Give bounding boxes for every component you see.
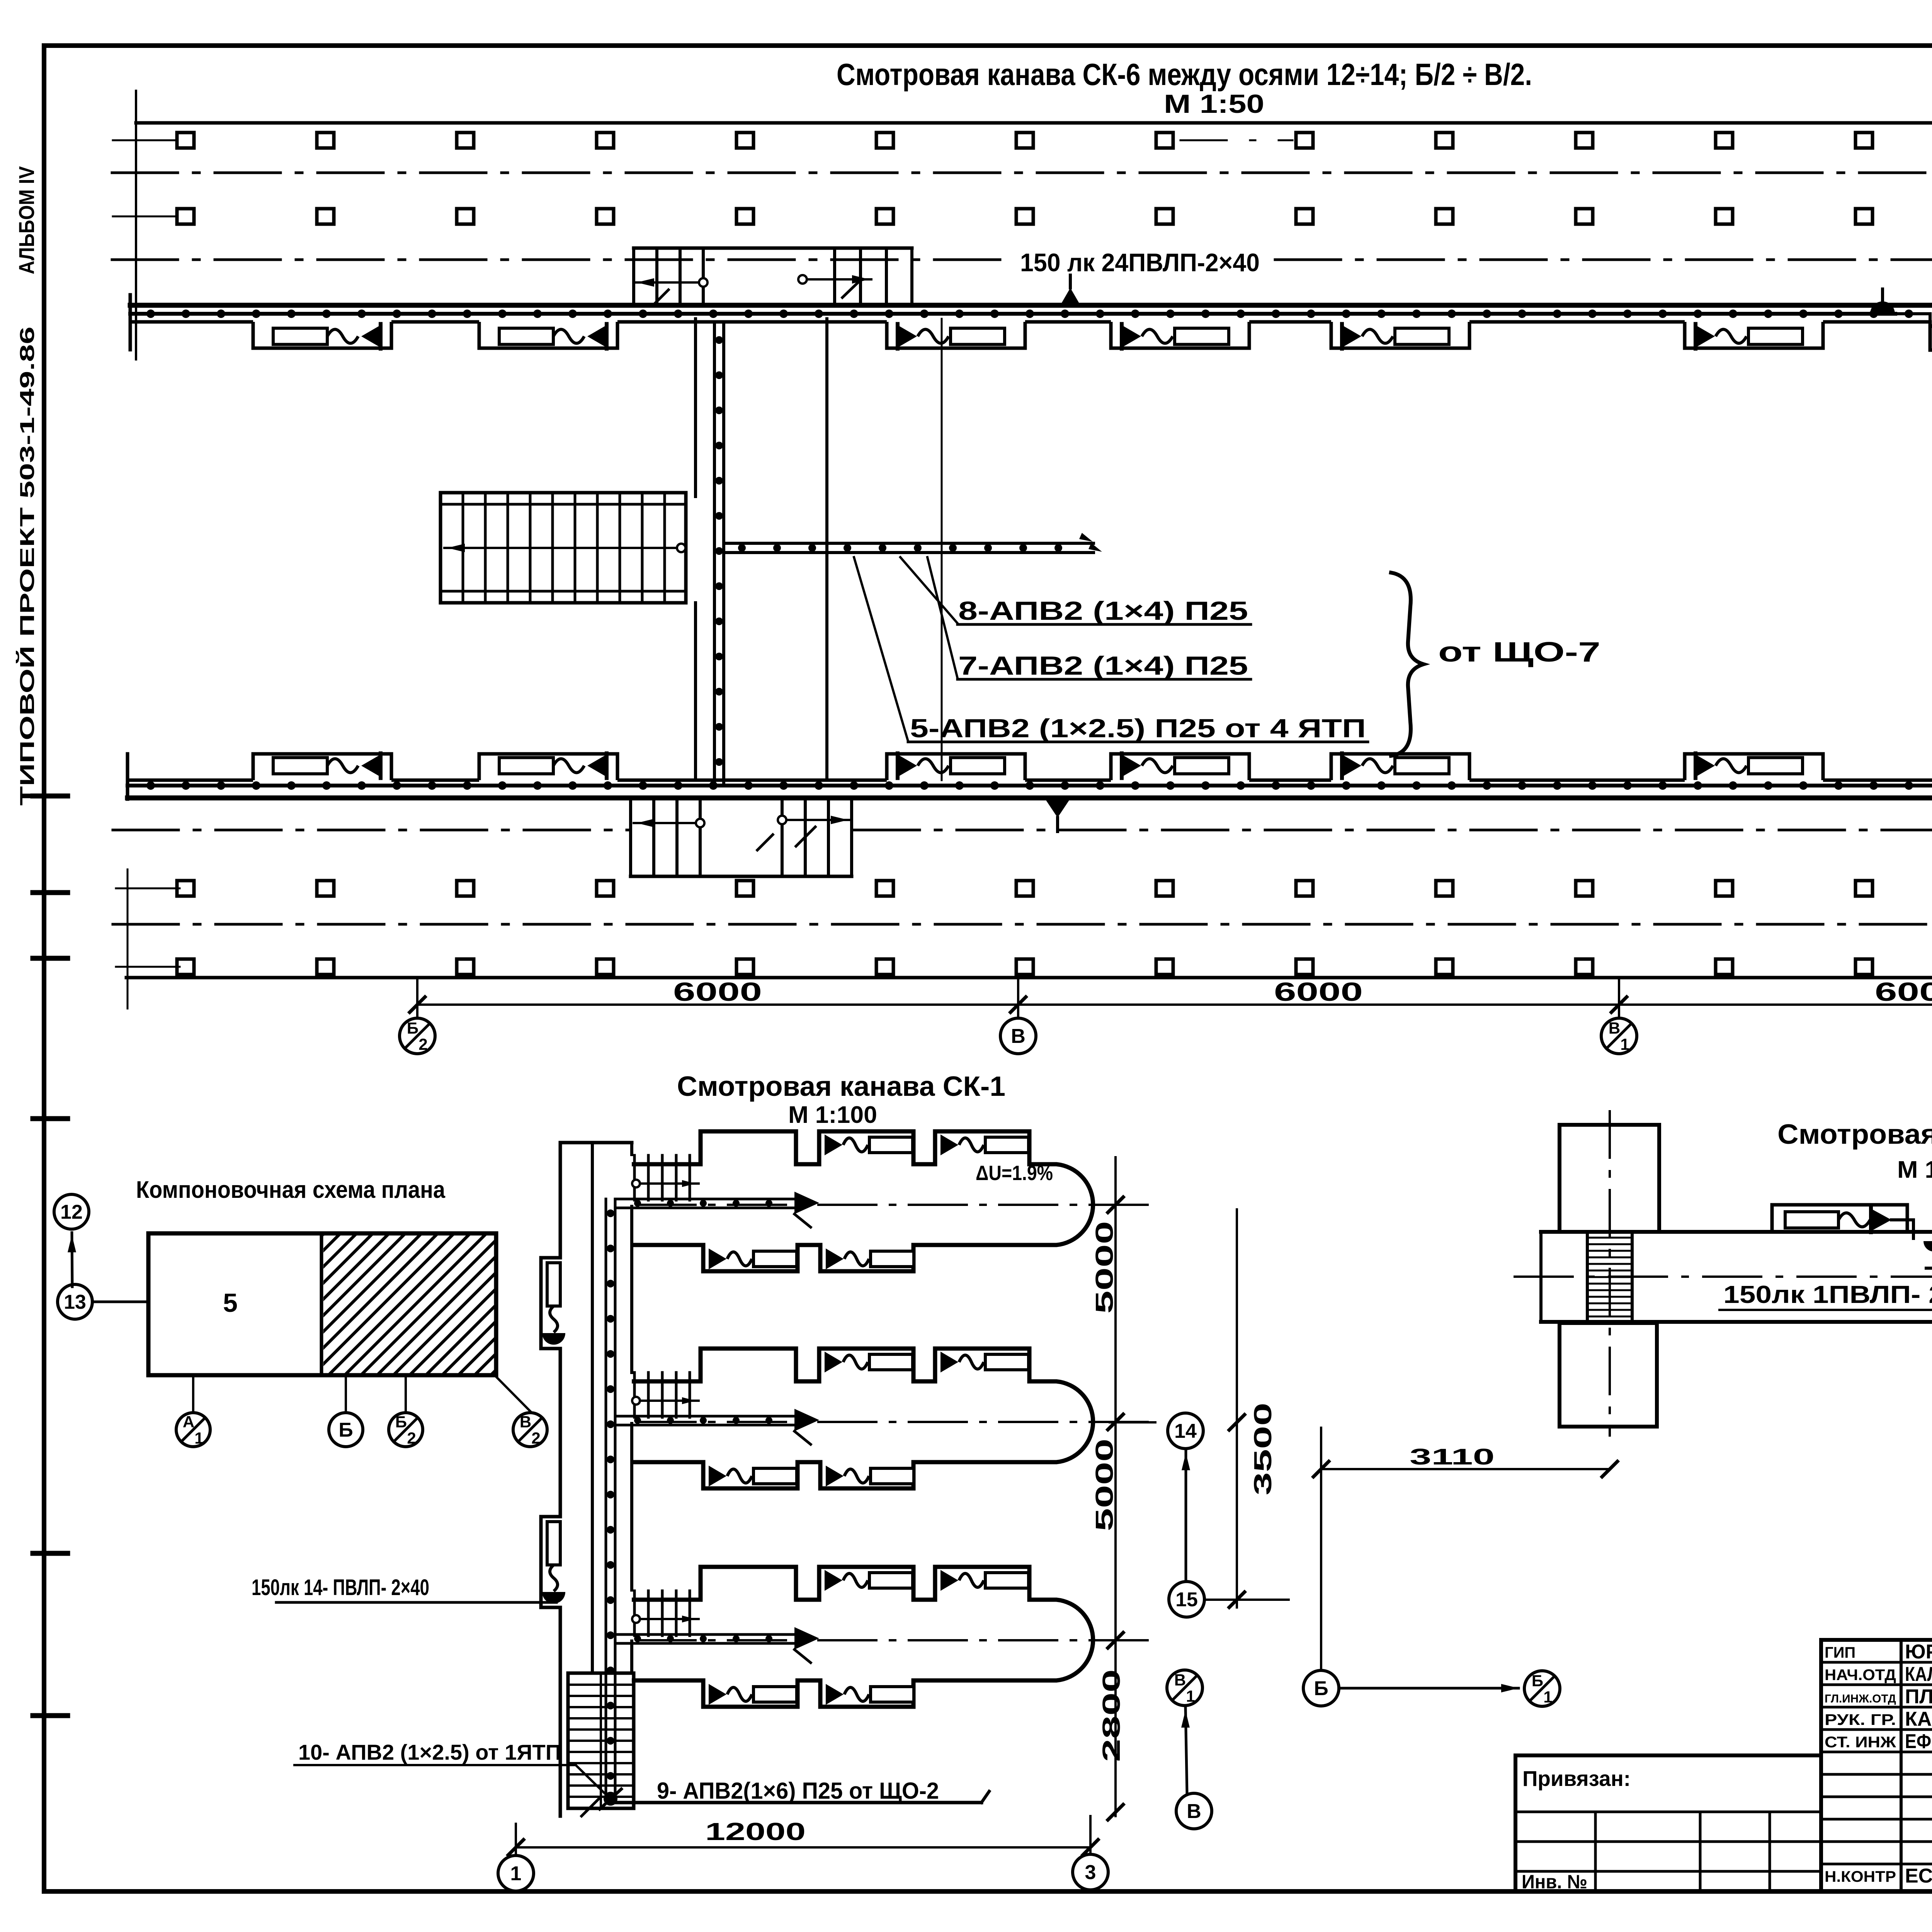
SK-1 pit 2 top bay lamp at 2120 [825,1352,842,1372]
svg-text:9- АПВ2(1×6) П25 от ЩО-2: 9- АПВ2(1×6) П25 от ЩО-2 [657,1778,939,1804]
row2 cable run line [128,784,1932,787]
luminaire bay row1-4 [1111,322,1249,348]
SK-1 riser line b [614,1199,617,1799]
flex conduit row2-5 [1362,759,1393,773]
corridor wall left lower [694,603,697,780]
sig table top [1821,1638,1932,1642]
junction arrow row1-3 [898,325,917,347]
svg-text:Б: Б [407,1019,418,1037]
SK-1 staircase tread 3 [568,1706,634,1708]
svg-text:Смотровая канава СК-4: Смотровая канава СК-4 [1777,1119,1932,1150]
left border fold tick [33,1713,68,1718]
dim drop left [515,1824,517,1855]
SK-1 pit 1 top bay lamp at 2120 [825,1134,842,1155]
svg-text:Б: Б [1532,1672,1543,1690]
column square row1-7 [1016,133,1033,148]
column square row2-13 [1855,209,1872,224]
flex conduit row2-6 [1716,759,1747,773]
column square row1-5 [736,133,753,148]
svg-text:В: В [1011,1025,1026,1048]
flex conduit row1-3 [918,329,949,343]
SK-1 pit 1 outline [632,1131,1093,1271]
dash-dot axis line 1 [112,172,1932,174]
SK-1 outer wall with niches [541,1143,560,1816]
bubble V SK-1 [1176,1793,1212,1829]
luminaire bay row2-4 [1111,754,1249,780]
SK-1 staircase arrow tick [582,1797,601,1816]
corridor wall right thin [941,319,943,780]
column square row3-5 [736,881,753,896]
cable 9-APV2 line [611,1801,981,1804]
SK-1 pit 3 bottom bay lamp at 2123 [826,1684,844,1705]
svg-text:В: В [520,1413,531,1431]
svg-text:2: 2 [418,1035,427,1053]
SK-1 pit 1 feed triangle [794,1192,819,1214]
privyazan box left [1514,1755,1517,1891]
svg-text:В: В [1187,1800,1201,1823]
arrow B to B/1 [1340,1687,1519,1690]
row2 pit upper profile [128,779,1932,782]
stairs lower arrow left [634,822,696,824]
schema axis tick [192,1377,194,1411]
SK-4 lamp bay outline [1772,1205,1907,1232]
SK-1 pit 3 feed triangle [794,1627,819,1650]
SK-1 riser line a [605,1199,607,1799]
SK-1 riser dots [607,1213,614,1776]
luminaire lamp row1-4 [1175,328,1229,344]
column square row1-12 [1716,133,1733,148]
column square row2-11 [1576,209,1593,224]
circle 15 SK-1 [1169,1582,1204,1617]
luminaire lamp row2-4 [1175,758,1229,774]
column square row2-10 [1436,209,1453,224]
sig table row line [1821,1796,1932,1798]
sheet border left [42,46,46,1891]
SK-1 staircase tread 4 [568,1717,634,1719]
axis row3 stub [116,888,180,889]
sig table row line [1821,1706,1932,1709]
svg-text:В: В [1609,1019,1620,1037]
axis bubble Б/2 [400,1018,435,1054]
row2 pit lower wall [128,796,1932,801]
sig table row line [1821,1684,1932,1686]
svg-text:1: 1 [1543,1688,1552,1706]
left border fold tick [33,794,68,799]
SK-1 staircase tread 10 [568,1784,634,1787]
SK-4 pit left closure [1539,1232,1543,1322]
svg-text:8-АПВ2 (1×4) П25: 8-АПВ2 (1×4) П25 [958,596,1248,626]
svg-text:3110: 3110 [1410,1444,1495,1469]
dimension line 6000s [417,1003,1932,1006]
schema bubble A/1 [176,1413,210,1447]
SK-1 pit 3 stairs [633,1591,636,1636]
left grid row [1515,1870,1821,1873]
svg-text:2: 2 [407,1429,416,1447]
column square row3-2 [317,881,334,896]
SK-4 wire to dome [1891,1220,1913,1238]
sig table row line [1821,1863,1932,1866]
stairs tick left [653,290,668,305]
column square row3-10 [1436,881,1453,896]
schema axis tick [405,1377,407,1411]
svg-text:14: 14 [1174,1420,1197,1442]
column square row2-6 [876,209,893,224]
luminaire bay row1-3 [887,322,1025,348]
dash-dot line 3 right [854,829,1932,832]
svg-text:1: 1 [510,1862,522,1885]
luminaire bay row2-1 [253,754,391,780]
luminaire bay row1-1 [253,322,391,348]
stair tread 8 [619,493,621,603]
SK-4 lower room [1560,1323,1657,1427]
column square row4-11 [1576,959,1593,975]
dim drop right [1089,1816,1092,1854]
SK-1 pit 3 top bay lamp at 2420 [940,1570,958,1591]
SK-1 staircase tread 8 [568,1762,634,1764]
svg-text:Инв. №: Инв. № [1522,1871,1587,1893]
SK-1 pit 1 centerline [638,1204,1151,1206]
SK-4 flex conduit [1838,1213,1870,1227]
svg-text:СТ. ИНЖ: СТ. ИНЖ [1825,1734,1896,1751]
column square row1-10 [1436,133,1453,148]
stair tread 7 [596,493,599,603]
svg-text:АЛЬБОМ IV: АЛЬБОМ IV [14,166,39,274]
stairs upper channel [634,247,912,250]
flex conduit row1-4 [1142,329,1173,343]
column square row4-5 [736,959,753,975]
SK-4 pit bottom edge [1541,1320,1932,1324]
left grid column [1594,1812,1597,1891]
row1 cable elbow to end bay [1895,314,1930,325]
svg-text:ΔU=1.9%: ΔU=1.9% [976,1162,1053,1185]
svg-text:Б: Б [1314,1677,1328,1700]
column square row3-4 [597,881,614,896]
column square row4-10 [1436,959,1453,975]
underline 1PVLP [1719,1309,1932,1311]
privyazan box top [1515,1753,1821,1757]
svg-text:5-АПВ2 (1×2.5) П25 от 4 ЯТП: 5-АПВ2 (1×2.5) П25 от 4 ЯТП [910,714,1366,743]
svg-text:6000: 6000 [1875,977,1932,1007]
left grid row [1515,1840,1821,1843]
column square row3-13 [1855,881,1872,896]
column square row3-12 [1716,881,1733,896]
riser dots [715,340,723,762]
sig table row line [1821,1840,1932,1843]
SK-1 riser end tick [600,1789,621,1809]
junction arrow row2-1 [361,755,381,777]
svg-text:6000: 6000 [1274,977,1363,1007]
dim tick В [1009,996,1027,1014]
leader 10-APV2 [576,1765,607,1796]
leader to label 5 [854,557,908,741]
sig table row line [1821,1728,1932,1731]
flex conduit row1-1 [327,329,358,343]
SK-1 staircase tread 9 [568,1773,634,1776]
SK-1 pit 3 centerline [638,1639,1151,1641]
schema rectangle [148,1233,496,1375]
SK-1 pit 3 top bay lamp at 2120 [825,1570,842,1591]
left grid column [1699,1812,1702,1891]
column square row3-6 [876,881,893,896]
SK-1 pit 2 feed triangle [794,1409,819,1431]
left grid row [1515,1811,1821,1813]
SK-4 pit top edge [1541,1230,1932,1234]
left border fold tick [33,1116,68,1121]
svg-text:ПЛЯКИН: ПЛЯКИН [1905,1685,1932,1708]
column square row3-7 [1016,881,1033,896]
axis circle 3 [1073,1854,1108,1890]
SK-1 pit 1 bottom bay lamp at 1820 [709,1248,726,1269]
cable riser line a [713,322,716,784]
stairs arrow left [634,281,699,284]
SK-1 pit 2 top bay lamp at 2420 [940,1352,958,1372]
junction arrow row2-6 [1696,755,1715,777]
axis drop В/1 [1618,978,1620,1018]
row1 right floor line [1931,324,1932,328]
svg-text:ГЛ.ИНЖ.ОТД: ГЛ.ИНЖ.ОТД [1825,1692,1896,1705]
svg-text:Смотровая канава СК-6 между ос: Смотровая канава СК-6 между осями 12÷14;… [837,57,1532,92]
axis row4 stub [116,966,180,968]
SK-1 pit 1 stairs [633,1155,636,1200]
underline label 7 [957,678,1251,681]
column square row3-3 [457,881,474,896]
underline label 8 [957,623,1251,626]
wall luminaire 2 SK-1 [547,1522,560,1565]
svg-text:А: А [183,1413,194,1431]
SK-1 riser end node [605,1793,616,1804]
luminaire lamp row1-1 [273,328,327,344]
luminaire lamp row1-5 [1395,328,1449,344]
stair walk arrow [447,544,465,552]
SK-4 vertical centerline [1609,1111,1611,1435]
stair tread 9 [641,493,644,603]
left border fold tick [33,890,68,895]
wall line above row1 [136,121,1932,125]
sig table left [1819,1640,1823,1891]
svg-text:6000: 6000 [673,977,762,1007]
luminaire lamp row2-5 [1395,758,1449,774]
svg-text:13: 13 [64,1291,86,1313]
svg-text:Н.КОНТР: Н.КОНТР [1825,1868,1896,1885]
junction arrow row2-3 [898,755,917,777]
luminaire bay row2-2 [479,754,617,780]
axis row2 stub [113,216,185,218]
underline label 5 [908,741,1368,743]
sig table row line [1821,1661,1932,1664]
middle staircase block [440,493,686,603]
SK-1 pit 3 bottom bay lamp at 1820 [709,1684,726,1705]
SK-1 pit 2 stairs [633,1372,636,1417]
sig table row line [1821,1773,1932,1776]
left border fold tick [33,956,68,961]
SK-1 staircase tread 7 [568,1751,634,1753]
column square row2-8 [1156,209,1173,224]
row1 pit upper wall [130,303,1932,308]
svg-text:150лк 1ПВЛП- 2×40: 150лк 1ПВЛП- 2×40 [1723,1281,1932,1308]
luminaire bay row2-6 [1685,754,1823,780]
schema axis tick [345,1377,347,1411]
stair tread 1 [462,493,464,603]
column square row4-7 [1016,959,1033,975]
luminaire lamp row2-6 [1748,758,1803,774]
feed arrow a [1079,533,1093,542]
SK-1 staircase rail [600,1673,602,1808]
SK-1 pit 2 bottom bay lamp at 2123 [826,1466,844,1486]
svg-text:В: В [1174,1671,1186,1689]
SK-1 pit 2 centerline [638,1421,1151,1423]
SK-1 inner wall b segment [630,1143,633,1155]
bubble V/1 SK-1 [1167,1670,1202,1706]
column square row1-6 [876,133,893,148]
luminaire bay row1-2 [479,322,617,348]
hook 9-APV2 [981,1791,989,1803]
stairs landing node right [798,275,807,284]
sheet border bottom [44,1889,1932,1894]
svg-text:ТИПОВОЙ ПРОЕКТ 503-1-49.86: ТИПОВОЙ ПРОЕКТ 503-1-49.86 [16,327,39,806]
svg-text:Б: Б [395,1413,407,1431]
SK-1 staircase tread 6 [568,1740,634,1742]
luminaire lamp row2-3 [951,758,1005,774]
luminaire bay row2-5 [1331,754,1469,780]
corridor wall middle [825,319,828,780]
svg-text:1: 1 [1186,1687,1195,1705]
junction arrow row1-2 [587,325,607,347]
junction arrow row2-5 [1342,755,1361,777]
SK-1 staircase tread 2 [568,1695,634,1697]
feed line dots [742,544,1058,552]
row2 cable fixing dots [151,781,1932,790]
dash-dot line 4 [113,923,1932,926]
sheet border top [44,43,1932,48]
SK-1 pit 3 feed a [615,1633,795,1636]
stair tread 3 [507,493,509,603]
svg-text:3: 3 [1085,1861,1096,1884]
axis row1 stub [113,139,185,141]
axis row1 dash segment [1180,139,1293,141]
svg-text:РУК. ГР.: РУК. ГР. [1825,1711,1896,1728]
left border fold tick [33,1551,68,1556]
row1 cable fixing dots [151,310,1932,318]
column square row2-5 [736,209,753,224]
SK-1 staircase tread 5 [568,1728,634,1731]
junction arrow row1-4 [1122,325,1141,347]
SK-1 inner wall b segment [630,1206,633,1372]
line 14-15 [1185,1450,1187,1580]
column square row4-1 [177,959,194,975]
stairs lower channel [631,875,852,878]
flex conduit row2-4 [1142,759,1173,773]
schema circle 13 [58,1284,92,1319]
column square row2-2 [317,209,334,224]
svg-text:2: 2 [531,1429,540,1447]
row1 left end closure [129,295,132,350]
luminaire lamp row1-2 [499,328,553,344]
column square row4-3 [457,959,474,975]
column square row4-8 [1156,959,1173,975]
luminaire bay row2-3 [887,754,1025,780]
SK-1 staircase tread 1 [568,1684,634,1686]
SK-1 dim line 3500 [1236,1209,1238,1607]
SK-1 dim stub [1110,1421,1155,1423]
bubble B SK-4 [1303,1670,1339,1706]
sig table row line [1821,1818,1932,1821]
svg-text:2800: 2800 [1097,1669,1125,1762]
SK-4 horizontal centerline [1515,1276,1932,1278]
column square row4-4 [597,959,614,975]
svg-text:ЕФИМОВА: ЕФИМОВА [1905,1730,1932,1753]
flex conduit row2-2 [553,759,584,773]
SK-1 inner wall a [591,1143,594,1673]
row1 wall lamp dome [1870,301,1895,314]
svg-text:М 1:50: М 1:50 [1897,1156,1932,1183]
SK-1 pit 2 feed a [615,1415,795,1418]
schema divider [320,1233,323,1375]
SK-1 inner wall b segment [630,1641,633,1673]
corridor wall left upper [694,319,697,497]
svg-text:7-АПВ2 (1×4) П25: 7-АПВ2 (1×4) П25 [958,651,1248,680]
SK-1 inner wall b segment [630,1423,633,1590]
SK-1 pit 2 bottom bay lamp at 1820 [709,1466,726,1486]
column square row1-13 [1855,133,1872,148]
svg-text:12: 12 [60,1201,83,1223]
column square row1-3 [457,133,474,148]
schema bubble B/2 [389,1413,423,1447]
flex conduit row1-6 [1716,329,1747,343]
column square row4-2 [317,959,334,975]
flex conduit row2-1 [327,759,358,773]
row1 cable run line [130,312,1895,316]
SK-1 pit 2 feed b [615,1424,795,1427]
stairs landing node left [699,278,707,287]
svg-text:150лк 14- ПВЛП- 2×40: 150лк 14- ПВЛП- 2×40 [252,1575,429,1600]
SK-1 wall top [560,1141,632,1145]
stair tread 4 [529,493,532,603]
circle 14 SK-1 [1168,1413,1203,1449]
row2 feed tap triangle [1045,799,1070,818]
flex conduit row1-5 [1362,329,1393,343]
svg-text:10- АПВ2 (1×2.5) от 1ЯТП: 10- АПВ2 (1×2.5) от 1ЯТП [298,1740,561,1764]
sig table row line [1821,1751,1932,1753]
leader to label 7 [927,557,957,678]
column square row2-7 [1016,209,1033,224]
tick line at 15 [1206,1599,1289,1601]
svg-text:15: 15 [1175,1588,1198,1611]
column square row3-11 [1576,881,1593,896]
axis drop В [1017,978,1019,1018]
flex conduit row2-3 [918,759,949,773]
schema bubble B [329,1413,363,1447]
dash-dot line 3 left [113,829,630,832]
SK-1 dim line 5000s [1114,1157,1117,1816]
column square row4-13 [1855,959,1872,975]
column square row1-1 [177,133,194,148]
SK-4 wall lamp dome [1923,1241,1932,1252]
luminaire bay row1-5 [1331,322,1469,348]
left grid column [1769,1812,1771,1891]
dash-dot axis line 2 right part [1275,259,1932,261]
junction arrow row1-1 [361,325,381,347]
svg-text:НАЧ.ОТД: НАЧ.ОТД [1825,1667,1896,1684]
column square row1-8 [1156,133,1173,148]
svg-text:ЮРИН: ЮРИН [1905,1641,1932,1663]
junction arrow row1-6 [1696,325,1715,347]
junction arrow row2-4 [1122,755,1141,777]
stairs arrow right [807,278,871,281]
SK-1 pit 1 feed a [615,1198,795,1201]
luminaire lamp row2-2 [499,758,553,774]
svg-text:150 лк 24ПВЛП-2×40: 150 лк 24ПВЛП-2×40 [1020,248,1260,277]
stair tread 6 [574,493,577,603]
